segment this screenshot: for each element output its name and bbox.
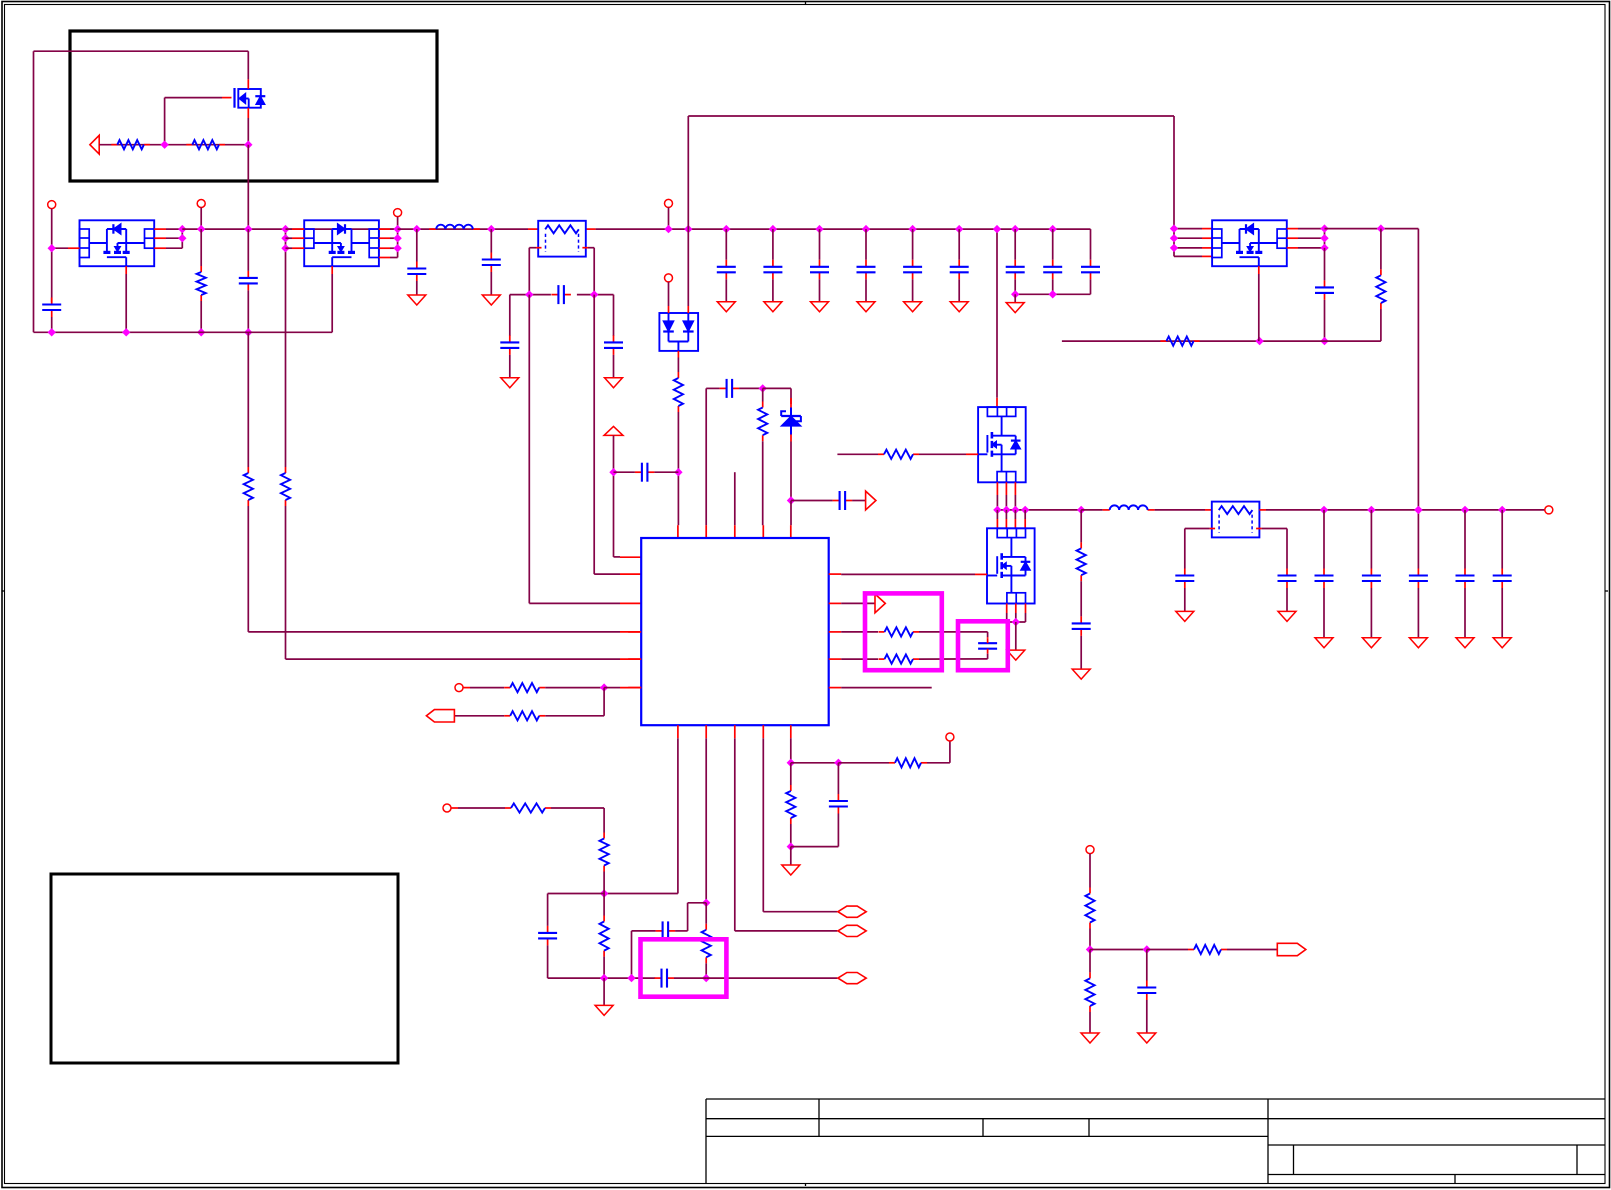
junction bbox=[1077, 506, 1085, 514]
resistor R7 bbox=[762, 388, 764, 401]
junction bbox=[1011, 225, 1019, 233]
highlight box compensation bbox=[865, 593, 942, 670]
junction bbox=[393, 225, 401, 233]
transistor Q2 bbox=[987, 528, 1035, 603]
capacitor C7 bbox=[551, 294, 558, 296]
ground bbox=[790, 847, 792, 865]
ground bbox=[1072, 669, 1090, 679]
junction bbox=[1414, 506, 1422, 514]
junction bbox=[787, 759, 795, 767]
junction bbox=[1461, 506, 1469, 514]
junction bbox=[600, 974, 608, 982]
annotation box bottom-left bbox=[51, 874, 398, 1063]
wire bbox=[838, 762, 889, 764]
resistor R8 bbox=[878, 453, 884, 455]
pin Q4 S2 bbox=[379, 237, 390, 239]
wire bbox=[1081, 509, 1103, 511]
junction bbox=[787, 496, 795, 504]
junction bbox=[1498, 506, 1506, 514]
junction bbox=[769, 225, 777, 233]
wire U1 bottom pin2 chain bbox=[705, 738, 707, 903]
port circle bbox=[394, 209, 402, 217]
pin Q6 drain bottom bbox=[1258, 266, 1260, 274]
port arrow comp bbox=[875, 594, 885, 613]
junction bbox=[702, 899, 710, 907]
pin U1 right1 bbox=[829, 573, 842, 575]
ground bbox=[1493, 638, 1511, 648]
resistor R18 bbox=[504, 715, 510, 717]
junction bbox=[1143, 945, 1151, 953]
wire bbox=[987, 632, 989, 637]
wire feedback row bbox=[1062, 340, 1381, 342]
wire bbox=[545, 687, 604, 689]
pin Q3 S1 bbox=[154, 228, 166, 230]
junction bbox=[908, 225, 916, 233]
ground bbox=[1015, 622, 1017, 650]
pin Q6 G2 bbox=[1174, 237, 1202, 239]
wire bbox=[927, 762, 950, 764]
pin Q1 source stubs bbox=[996, 482, 998, 495]
resistor R12 bbox=[841, 631, 878, 633]
zone tick top bbox=[805, 2, 807, 5]
capacitor Co2 bbox=[1370, 510, 1372, 569]
ground bbox=[603, 978, 605, 1005]
junction bbox=[702, 974, 710, 982]
filter FB1 bbox=[538, 221, 586, 257]
capacitor C17 bbox=[547, 926, 549, 933]
junction bbox=[664, 225, 672, 233]
resistor R16 bbox=[790, 763, 792, 785]
wire Q5 gate bbox=[164, 98, 166, 145]
wire down to VOUT row bbox=[1417, 229, 1419, 510]
ground bbox=[1278, 611, 1296, 621]
resistor R6 bbox=[677, 372, 679, 378]
pin U1 bottom1 bbox=[677, 725, 679, 738]
wire bbox=[1325, 228, 1419, 230]
wire bbox=[1155, 509, 1205, 511]
junction bbox=[178, 234, 186, 242]
wire bbox=[987, 654, 989, 659]
ground bbox=[1456, 638, 1474, 648]
pin Q6 G1 bbox=[1174, 228, 1202, 230]
resistor R22 bbox=[1089, 888, 1091, 894]
resistor R17 bbox=[504, 687, 510, 689]
junction bbox=[1320, 224, 1328, 232]
wire bbox=[548, 893, 605, 895]
ground bbox=[764, 302, 782, 312]
junction bbox=[1367, 506, 1375, 514]
pin Q4 G1 bbox=[292, 228, 304, 230]
wire Q4a gate chain bbox=[285, 229, 287, 467]
port arrow P1 bbox=[90, 135, 99, 154]
junction bbox=[684, 225, 692, 233]
capacitor C16 bbox=[987, 637, 989, 638]
capacitor C15 bbox=[1324, 248, 1326, 281]
wire to U1 top pin1 bbox=[677, 412, 679, 525]
wire bbox=[1227, 949, 1277, 951]
ground bbox=[1014, 294, 1016, 302]
zener Z1 bbox=[790, 398, 792, 408]
junction bbox=[197, 225, 205, 233]
port tag left bbox=[426, 710, 454, 722]
wire bbox=[668, 207, 670, 229]
junction bbox=[197, 328, 205, 336]
pin U1 right2 bbox=[829, 602, 842, 604]
wire Q2 gate from U1 bbox=[841, 573, 975, 575]
junction bbox=[244, 141, 252, 149]
junction bbox=[1170, 224, 1178, 232]
capacitor Cb2 bbox=[772, 229, 774, 260]
pin FB1 out-b bbox=[582, 247, 588, 249]
wire to U1 left pin3 bbox=[528, 295, 530, 604]
pin U1 left6 bbox=[628, 687, 641, 689]
pin U1 right5 bbox=[829, 687, 842, 689]
capacitor C1 bbox=[51, 298, 53, 305]
junction bbox=[48, 244, 56, 252]
junction bbox=[1170, 244, 1178, 252]
capacitor C14 bbox=[1286, 529, 1288, 569]
wire top-left feed bbox=[34, 50, 249, 52]
junction bbox=[590, 290, 598, 298]
capacitor Ct1 bbox=[1014, 229, 1016, 260]
junction bbox=[815, 225, 823, 233]
junction bbox=[1011, 506, 1019, 514]
port circle input bbox=[455, 684, 463, 692]
wire bbox=[1147, 949, 1188, 951]
title block bbox=[706, 1098, 1605, 1100]
ground bbox=[857, 302, 875, 312]
transistor Q5 bbox=[233, 88, 235, 108]
wire input row bbox=[99, 144, 248, 146]
wire bbox=[919, 453, 966, 455]
capacitor Cb6 bbox=[958, 229, 960, 260]
junction bbox=[1002, 506, 1010, 514]
pin FB2 b bbox=[1256, 528, 1262, 530]
zone tick left bbox=[2, 590, 5, 592]
capacitor Ct2 bbox=[1052, 229, 1054, 260]
pin U1 bottom3 bbox=[734, 725, 736, 738]
pin Q2 source stubs bbox=[1006, 604, 1008, 614]
ground bbox=[408, 295, 426, 305]
wire bbox=[1089, 854, 1091, 888]
junction bbox=[955, 225, 963, 233]
junction bbox=[1170, 234, 1178, 242]
wire bbox=[51, 317, 53, 332]
pin U1 right4 bbox=[829, 658, 842, 660]
junction bbox=[722, 225, 730, 233]
junction bbox=[281, 234, 289, 242]
junction bbox=[1086, 945, 1094, 953]
inductor L1 bbox=[429, 228, 436, 230]
zone tick right bbox=[1605, 590, 1608, 592]
wire bbox=[1007, 621, 1026, 623]
pin Q3 gate bbox=[68, 247, 80, 249]
pin U1 left4 bbox=[628, 631, 641, 633]
junction bbox=[487, 225, 495, 233]
junction bbox=[160, 141, 168, 149]
wire branch down bbox=[603, 688, 605, 716]
wire from Q5 chain bbox=[247, 145, 249, 229]
wire U1 pin dead end bbox=[841, 687, 932, 689]
resistor R2 bbox=[186, 144, 192, 146]
junction bbox=[627, 974, 635, 982]
junction bbox=[244, 328, 252, 336]
wire cap row bbox=[510, 294, 551, 296]
junction bbox=[178, 225, 186, 233]
wire U1 bottom pin1 chain bbox=[677, 738, 679, 893]
stub wire nc pin bbox=[734, 472, 736, 525]
junction bbox=[281, 225, 289, 233]
node SW row bbox=[997, 509, 1081, 511]
port circle VOUT bbox=[1545, 506, 1553, 514]
pin Q6 S1 bbox=[1287, 228, 1298, 230]
wire bbox=[790, 442, 792, 501]
wire bbox=[604, 687, 620, 689]
junction bbox=[1320, 337, 1328, 345]
junction bbox=[609, 468, 617, 476]
junction bbox=[993, 225, 1001, 233]
wire zener top bbox=[763, 387, 791, 389]
transistor Q1 bbox=[978, 407, 1026, 482]
resistor R20 bbox=[603, 833, 605, 839]
highlight box filter bbox=[641, 939, 727, 996]
port circle bbox=[665, 274, 673, 282]
junction bbox=[393, 234, 401, 242]
junction bbox=[674, 468, 682, 476]
wire bbox=[528, 248, 530, 295]
port circle en bbox=[1086, 846, 1094, 854]
resistor R14 bbox=[705, 903, 707, 924]
wire bbox=[451, 807, 458, 809]
ground bbox=[717, 302, 735, 312]
junction bbox=[759, 384, 767, 392]
wire bbox=[1324, 229, 1326, 248]
capacitor Cb3 bbox=[819, 229, 821, 260]
capacitor C6 bbox=[509, 295, 511, 336]
diode D1 dual package bbox=[659, 313, 698, 351]
pin U1 right3 bbox=[829, 631, 842, 633]
capacitor C21 bbox=[1146, 950, 1148, 981]
wire bbox=[547, 945, 549, 978]
capacitor Co5 bbox=[1501, 510, 1503, 569]
port circle bbox=[665, 199, 673, 207]
wire bbox=[668, 282, 670, 306]
pin Q4 drain bottom bbox=[331, 266, 333, 274]
capacitor Co4 bbox=[1464, 510, 1466, 569]
resistor R24 bbox=[1089, 950, 1091, 973]
pin U1 bottom4 bbox=[762, 725, 764, 738]
junction bbox=[993, 506, 1001, 514]
resistor R5 bbox=[285, 467, 287, 473]
highlight box cap bbox=[958, 621, 1008, 670]
resistor R21 bbox=[603, 894, 605, 916]
capacitor Cb5 bbox=[912, 229, 914, 260]
pin Q6 G4 bbox=[1174, 255, 1202, 257]
resistor R1 bbox=[111, 144, 117, 146]
junction bbox=[122, 328, 130, 336]
zone tick bottom bbox=[805, 1183, 807, 1186]
node GND return bus bbox=[34, 331, 333, 333]
pin Q4 G3 bbox=[292, 247, 304, 249]
resistor R4 bbox=[247, 332, 249, 467]
wire top loop bbox=[687, 116, 689, 229]
wire to U1 pin bbox=[248, 631, 620, 633]
pin D1 common bbox=[677, 351, 679, 358]
wire U1 comp out bbox=[841, 602, 875, 604]
wire U1 bottom pin5 chain bbox=[790, 738, 792, 763]
junction bbox=[787, 842, 795, 850]
wire bbox=[551, 807, 604, 809]
junction bbox=[48, 328, 56, 336]
pin Q6 S2 bbox=[1287, 237, 1298, 239]
junction bbox=[244, 225, 252, 233]
capacitor Co3 bbox=[1417, 510, 1419, 569]
wire gate pull bbox=[51, 209, 53, 303]
pin FB2 a bbox=[1210, 528, 1216, 530]
wire to U1 pin bbox=[286, 658, 621, 660]
wire Q1 gate bbox=[837, 453, 878, 455]
wire bbox=[632, 930, 656, 932]
wire bbox=[739, 387, 763, 389]
op-amp U1 controller bbox=[641, 538, 829, 725]
transistor Q3 package bbox=[80, 220, 155, 266]
junction bbox=[393, 244, 401, 252]
ground bbox=[1138, 1033, 1156, 1043]
port out3 bbox=[838, 973, 866, 984]
pin Q2 drain stubs bbox=[996, 510, 998, 519]
pin Q4 S1 bbox=[379, 228, 390, 230]
capacitor Cb4 bbox=[865, 229, 867, 260]
junction bbox=[1414, 506, 1422, 514]
capacitor C20 bbox=[837, 763, 839, 794]
junction bbox=[600, 889, 608, 897]
pin U1 left5 bbox=[628, 658, 641, 660]
ground bbox=[1089, 1012, 1091, 1033]
resistor R19 bbox=[505, 807, 511, 809]
wire bbox=[397, 217, 399, 249]
wire bbox=[1090, 949, 1147, 951]
ground bbox=[950, 302, 968, 312]
junction bbox=[525, 290, 533, 298]
capacitor Co1 bbox=[1323, 510, 1325, 569]
wire cap row u1 top bbox=[705, 388, 707, 525]
junction bbox=[1012, 618, 1020, 626]
port circle input2 bbox=[443, 804, 451, 812]
junction bbox=[1049, 290, 1057, 298]
port tag right bbox=[1277, 943, 1306, 955]
ground bbox=[1176, 611, 1194, 621]
pin Q4 G2 bbox=[292, 237, 304, 239]
pin Q6 S3 bbox=[1287, 247, 1298, 249]
junction bbox=[862, 225, 870, 233]
port out2 bbox=[838, 925, 866, 936]
capacitor C10 bbox=[720, 387, 727, 389]
transistor Q6 package bbox=[1212, 220, 1287, 266]
pin Q3 S3 bbox=[154, 247, 166, 249]
transistor Q4 package bbox=[304, 220, 379, 266]
resistor R23 bbox=[1188, 949, 1194, 951]
ground bbox=[501, 378, 519, 388]
annotation box top-left bbox=[70, 31, 437, 181]
node VOUT bbox=[1259, 509, 1266, 511]
resistor R10 bbox=[1380, 229, 1382, 270]
resistor R9 snubber bbox=[1080, 510, 1082, 543]
junction bbox=[1049, 225, 1057, 233]
junction bbox=[1320, 506, 1328, 514]
wire bbox=[791, 762, 839, 764]
resistor R15 bbox=[889, 762, 895, 764]
wire Q3 source tie bbox=[181, 229, 183, 248]
capacitor C13 bbox=[1184, 529, 1186, 569]
ground bbox=[482, 295, 500, 305]
pin Q5 source bbox=[247, 108, 249, 118]
capacitor C12 snubber bbox=[1080, 581, 1082, 616]
power arrow VCC bbox=[604, 426, 623, 435]
inductor L2 bbox=[1103, 509, 1110, 511]
pin U1 bottom5 bbox=[790, 725, 792, 738]
wire bbox=[688, 902, 707, 904]
wire bbox=[613, 435, 615, 557]
capacitor C11 bbox=[791, 500, 833, 502]
capacitor C8 bbox=[613, 295, 615, 336]
node VIN bus bbox=[182, 228, 397, 230]
pin Q6 G3 bbox=[1174, 247, 1202, 249]
junction bbox=[413, 225, 421, 233]
ground bbox=[904, 302, 922, 312]
port circle bbox=[48, 201, 56, 209]
ground bbox=[811, 302, 829, 312]
capacitor C9 bbox=[613, 471, 615, 473]
wire to U1 left pin2 bbox=[593, 295, 595, 574]
pin Q3 drain bottom bbox=[125, 266, 127, 274]
capacitor C2 bbox=[247, 229, 249, 271]
ground bbox=[1409, 638, 1427, 648]
wire bbox=[674, 977, 706, 979]
port circle bbox=[946, 733, 954, 741]
pin Q4 S4 bbox=[379, 257, 390, 259]
pin FB1 out-a bbox=[536, 247, 542, 249]
pin Q5 drain bbox=[247, 51, 249, 79]
capacitor C3 bbox=[416, 229, 418, 261]
junction bbox=[1377, 224, 1385, 232]
wire bbox=[1089, 929, 1091, 950]
junction bbox=[1011, 290, 1019, 298]
wire U1 bottom pin4 chain bbox=[762, 738, 764, 912]
wire bbox=[603, 872, 605, 894]
capacitor C19 bbox=[655, 977, 662, 979]
port arrow out bbox=[866, 491, 876, 510]
filter FB2 bbox=[1212, 502, 1260, 538]
capacitor Cb1 bbox=[725, 229, 727, 260]
junction bbox=[1255, 337, 1263, 345]
wire main bus bbox=[398, 228, 528, 230]
pin Q1 drain bbox=[996, 398, 998, 407]
wire Q1 drain from bus bbox=[996, 229, 998, 398]
resistor R11 bbox=[1160, 340, 1166, 342]
ground bbox=[1362, 638, 1380, 648]
port circle bbox=[197, 200, 205, 208]
junction bbox=[834, 759, 842, 767]
ground bbox=[1315, 638, 1333, 648]
wire U1 bottom pin3 chain bbox=[734, 738, 736, 931]
pin Q3 S2 bbox=[154, 237, 166, 239]
port out1 bbox=[838, 906, 866, 917]
capacitor Ct3 bbox=[1090, 229, 1092, 260]
ground bbox=[605, 378, 623, 388]
capacitor C18 bbox=[656, 930, 663, 932]
junction bbox=[1320, 234, 1328, 242]
pin Q4 S3 bbox=[379, 247, 390, 249]
